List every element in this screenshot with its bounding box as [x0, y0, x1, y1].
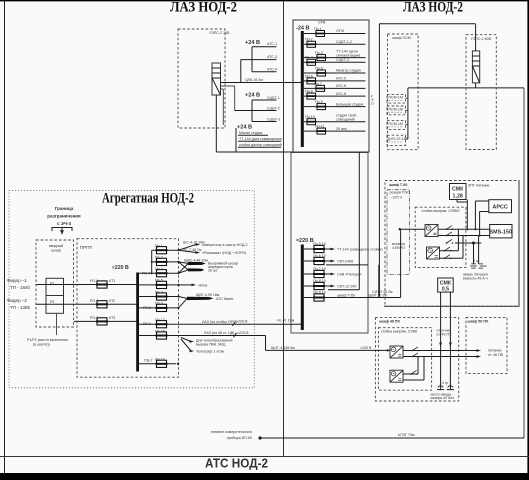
svg-text:РВ-5: РВ-5: [143, 306, 151, 310]
svg-text:Малая студия: Малая студия: [239, 131, 262, 135]
svg-text:4 ЕВРО: 4 ЕВРО: [392, 246, 405, 250]
svg-text:SMS-150: SMS-150: [490, 230, 512, 236]
svg-text:Пр-17: Пр-17: [155, 358, 165, 362]
svg-text:УЗП-12-240: УЗП-12-240: [337, 285, 356, 289]
svg-text:с ЭЧ-3: с ЭЧ-3: [57, 221, 72, 226]
svg-text:шкаф: шкаф: [51, 249, 61, 253]
svg-text:питание: питание: [488, 349, 502, 353]
svg-text:4 гр.: 4 гр.: [473, 259, 480, 263]
svg-text:Пр-7: Пр-7: [314, 82, 322, 86]
svg-text:ст. 46 ПВ: ст. 46 ПВ: [488, 353, 504, 357]
svg-text:УЗП-2408: УЗП-2408: [337, 260, 353, 264]
svg-text:(в шахте)): (в шахте)): [33, 343, 50, 347]
svg-text:0,5: 0,5: [442, 287, 449, 293]
svg-text:УЭПС-2 60В: УЭПС-2 60В: [471, 37, 492, 41]
svg-text:Большая студия: Большая студия: [336, 102, 363, 106]
svg-text:ОТМ: ОТМ: [336, 29, 344, 33]
svg-text:Пр-9: Пр-9: [155, 302, 163, 306]
svg-text:Пр-9 10: Пр-9 10: [313, 290, 326, 294]
svg-text:вызова ПВА ЭМЦ: вызова ПВА ЭМЦ: [196, 343, 226, 347]
svg-text:Граница: Граница: [55, 206, 74, 211]
svg-text:ЩВС-4,48 10м: ЩВС-4,48 10м: [184, 258, 208, 262]
svg-text:ЩВП 10 2м: ЩВП 10 2м: [368, 294, 387, 298]
svg-text:ПРПТ: ПРПТ: [80, 245, 92, 250]
svg-text:чётка: чётка: [198, 284, 207, 288]
svg-text:≈220-В: ≈220-В: [237, 331, 249, 335]
svg-text:ст. 49 ПХ: ст. 49 ПХ: [437, 333, 453, 337]
svg-text:Пр-3: Пр-3: [315, 51, 323, 55]
svg-text:РО-3: РО-3: [90, 316, 98, 320]
svg-text:шкаф Т-60: шкаф Т-60: [337, 294, 355, 298]
svg-text:ЛАЗ (на 48 ст. ЦВ): ЛАЗ (на 48 ст. ЦВ): [204, 331, 234, 335]
svg-text:-24 В: -24 В: [296, 26, 309, 32]
svg-text:КТ2: КТ2: [109, 299, 115, 303]
svg-text:Пр-15: Пр-15: [155, 329, 165, 333]
svg-text:СРВ: СРВ: [318, 21, 326, 25]
svg-text:АТС-4: АТС-4: [267, 68, 277, 72]
svg-text:прибора ИП-60: прибора ИП-60: [227, 436, 252, 440]
svg-text:ТП - 1840: ТП - 1840: [10, 285, 30, 290]
svg-text:Пр-4: Пр-4: [305, 56, 313, 60]
svg-text:СЦБТ-3: СЦБТ-3: [267, 118, 280, 122]
svg-text:СЦБТ-3: СЦБТ-3: [336, 58, 349, 62]
svg-text:4 гр.: 4 гр.: [442, 381, 449, 385]
svg-text:ТП - 1385: ТП - 1385: [10, 305, 30, 310]
svg-text:Пр-1: Пр-1: [155, 244, 163, 248]
svg-text:РО-2: РО-2: [90, 299, 98, 303]
svg-text:+24 В: +24 В: [237, 125, 252, 131]
svg-text:ВС-7,48 7м: ВС-7,48 7м: [183, 248, 202, 252]
svg-text:Пр-9: Пр-9: [315, 100, 323, 104]
svg-text:шкафа 49 А/м: шкафа 49 А/м: [431, 396, 455, 400]
svg-text:Телеграф 1 этаж: Телеграф 1 этаж: [196, 350, 225, 354]
svg-text:шкаф 50 ПХ: шкаф 50 ПХ: [468, 320, 490, 324]
svg-text:Фидер –2: Фидер –2: [7, 298, 27, 303]
svg-text:АТС-1: АТС-1: [267, 42, 277, 46]
svg-text:РВ-6: РВ-6: [143, 322, 151, 326]
svg-text:Р2: Р2: [50, 300, 54, 304]
svg-text:Пр-6 10: Пр-6 10: [313, 254, 326, 258]
svg-text:СЦБТ-1,2: СЦБТ-1,2: [336, 40, 352, 44]
svg-text:«Ромашка» (НОД + КОРН): «Ромашка» (НОД + КОРН): [202, 251, 246, 255]
svg-text:+24 В: +24 В: [245, 40, 260, 46]
svg-text:СЦБТ-1: СЦБТ-1: [267, 96, 280, 100]
svg-text:Пр-8 10: Пр-8 10: [313, 279, 326, 283]
svg-text:совещаний: совещаний: [336, 117, 355, 121]
svg-text:Пр-1: Пр-1: [314, 27, 322, 31]
svg-text:≈220-В: ≈220-В: [236, 319, 248, 323]
svg-text:Р1/Р2 (место включения: Р1/Р2 (место включения: [27, 338, 68, 342]
svg-text:СМК: СМК: [452, 187, 464, 193]
svg-text:АТС-6: АТС-6: [336, 84, 346, 88]
svg-text:Пр-3: Пр-3: [155, 267, 163, 271]
svg-text:ёмкость 45 А·ч: ёмкость 45 А·ч: [463, 277, 488, 281]
svg-text:САВ «Печора»: САВ «Печора»: [337, 273, 362, 277]
svg-text:Пр-8: Пр-8: [305, 90, 313, 94]
svg-text:Межгор студия: Межгор студия: [336, 69, 361, 73]
svg-text:26 шт.: 26 шт.: [208, 269, 218, 273]
svg-text:вводный: вводный: [49, 244, 63, 248]
svg-text:ЬПЗГ 70м: ЬПЗГ 70м: [398, 433, 415, 437]
svg-text:стойка диктор совещаний: стойка диктор совещаний: [239, 143, 282, 147]
svg-text:Пр-5: Пр-5: [315, 66, 323, 70]
svg-text:1,28: 1,28: [453, 194, 463, 200]
svg-text:≈220 В: ≈220 В: [360, 346, 372, 350]
svg-text:ЛАЗ НОД-2: ЛАЗ НОД-2: [403, 0, 463, 16]
svg-text:компрессор в шахту НОД-2: компрессор в шахту НОД-2: [202, 243, 248, 247]
svg-text:ЩОГ-4,448 6м: ЩОГ-4,448 6м: [271, 346, 295, 350]
svg-text:стойка выпрям. СУВК: стойка выпрям. СУВК: [381, 329, 418, 333]
svg-text:сигнализации): сигнализации): [336, 53, 360, 57]
svg-text:Пр-2: Пр-2: [155, 256, 163, 260]
svg-text:Пр-7 10: Пр-7 10: [313, 267, 326, 271]
svg-text:Пр-2: Пр-2: [305, 38, 313, 42]
svg-text:стойка выпрям. СУВК2: стойка выпрям. СУВК2: [422, 209, 460, 213]
svg-text:АТС-5: АТС-5: [336, 77, 346, 81]
svg-text:Фидер –1: Фидер –1: [7, 278, 27, 283]
svg-text:шкаф Т-60: шкаф Т-60: [389, 183, 407, 187]
svg-text:Пр-13: Пр-13: [155, 318, 165, 322]
svg-text:ГЩ-7: ГЩ-7: [144, 359, 153, 363]
svg-text:≈220 В: ≈220 В: [296, 238, 314, 244]
svg-text:СЦБТ-2: СЦБТ-2: [267, 107, 280, 111]
svg-text:ПСМ-1М: ПСМ-1М: [389, 107, 403, 111]
svg-text:ЛАЗ НОД-2: ЛАЗ НОД-2: [170, 0, 237, 16]
svg-text:КТ1: КТ1: [109, 279, 115, 283]
svg-text:ДУН-22-132: ДУН-22-132: [388, 137, 408, 141]
svg-text:шкаф 49 ПХ: шкаф 49 ПХ: [379, 320, 401, 324]
svg-text:+24 В: +24 В: [245, 93, 260, 99]
svg-text:РВ-4: РВ-4: [142, 272, 150, 276]
svg-text:Пр-5 10: Пр-5 10: [313, 242, 326, 246]
svg-text:Пр-10: Пр-10: [305, 115, 315, 119]
svg-text:Пр-7: Пр-7: [155, 290, 163, 294]
svg-text:АТС НОД-2: АТС НОД-2: [205, 457, 268, 471]
svg-text:НL-91 16м: НL-91 16м: [277, 318, 295, 322]
svg-text:ТТ-144 (для совмещения): ТТ-144 (для совмещения): [239, 137, 282, 141]
svg-text:РО-1: РО-1: [90, 279, 98, 283]
svg-text:ПСМ-1М: ПСМ-1М: [389, 96, 403, 100]
svg-text:ЦЛК-16 2м: ЦЛК-16 2м: [245, 78, 263, 82]
svg-text:Агрегатная НОД-2: Агрегатная НОД-2: [102, 191, 194, 207]
svg-text:29 апс: 29 апс: [336, 127, 347, 131]
svg-text:АТС-8: АТС-8: [336, 92, 346, 96]
svg-text:АТС-3: АТС-3: [267, 55, 277, 59]
svg-text:АТС Квант: АТС Квант: [216, 297, 234, 301]
svg-text:П: П: [371, 102, 374, 106]
svg-text:резерв ПЭС: резерв ПЭС: [390, 191, 411, 195]
svg-text:АРСС: АРСС: [492, 204, 507, 210]
svg-text:ЩВГ-4,95 16м: ЩВГ-4,95 16м: [196, 293, 220, 297]
svg-text:Пр-6: Пр-6: [305, 74, 313, 78]
svg-text:ЗПТ питание: ЗПТ питание: [468, 184, 490, 188]
svg-text:ЛАЗ (на стойку ОРП): ЛАЗ (на стойку ОРП): [202, 320, 237, 324]
svg-text:Пр-11: Пр-11: [315, 125, 325, 129]
svg-text:разграничения: разграничения: [47, 214, 81, 219]
svg-text:УЭПС-2 24В: УЭПС-2 24В: [209, 31, 230, 35]
svg-text:≈220 В: ≈220 В: [112, 265, 129, 271]
svg-text:КТ3: КТ3: [109, 316, 115, 320]
svg-text:~220 V: ~220 V: [391, 196, 403, 200]
svg-text:ПСМ-1М: ПСМ-1М: [389, 122, 403, 126]
svg-text:СМК: СМК: [440, 280, 452, 286]
svg-text:питание измерительного: питание измерительного: [211, 430, 252, 434]
svg-text:Пр-5: Пр-5: [155, 279, 163, 283]
svg-text:шкаф ПСМ: шкаф ПСМ: [392, 36, 411, 40]
